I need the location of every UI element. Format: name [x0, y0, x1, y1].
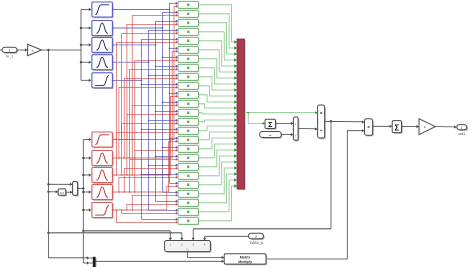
wire Sum1 to Sum2 [276, 122, 294, 125]
svg-text:Multiply: Multiply [238, 260, 252, 264]
wire MF B2 fanout to rule blocks [112, 50, 178, 159]
wire rule11 to mux bar [199, 95, 238, 104]
product block rule9 [178, 73, 199, 81]
wire node B to Mux3 input2 [83, 261, 93, 264]
wire Mux3 to MatrixMultiply [96, 260, 225, 263]
wire eps to Sum2 [281, 133, 293, 136]
wire rule1 to mux bar [199, 5, 238, 44]
wire MF A1 fanout to rule blocks [112, 2, 178, 185]
svg-text:+: + [295, 133, 297, 137]
product block rule20 [178, 172, 199, 180]
svg-text:DATA_A: DATA_A [250, 241, 264, 245]
mux Mux25 bar [237, 39, 246, 190]
wire MF B4 fanout to rule blocks [112, 140, 178, 193]
product block rule1 [178, 1, 199, 9]
wire Mux4 to MatrixMultiply [188, 252, 225, 260]
membership function B2 (input2) [92, 151, 114, 167]
sum block Sum3 [392, 121, 402, 134]
product block rule4 [178, 28, 199, 36]
product block rule23 [178, 199, 199, 207]
wire node A to Mux3 input1 [48, 256, 92, 259]
wire rule2 to mux bar [199, 14, 238, 50]
svg-text:Σ: Σ [268, 122, 272, 129]
wire MF A5 fanout to rule blocks [112, 38, 178, 221]
wire Sum2 to divide denominator [298, 127, 318, 130]
outport Out1 [457, 125, 468, 136]
wire rule10 to mux bar [199, 86, 238, 98]
wire branch to Sum1 [248, 113, 265, 125]
gain K2 [419, 119, 435, 135]
membership function B3 (input2) [92, 168, 114, 184]
wire node A to Mux2 input1 [48, 183, 72, 186]
product block rule8 [178, 64, 199, 72]
wire rule24 to mux bar [199, 178, 238, 212]
svg-text:+: + [295, 122, 297, 126]
product block rule25 [178, 217, 199, 225]
wire rule6 to mux bar [199, 50, 238, 74]
node A vertical x1 distribution [47, 50, 49, 258]
wire MF A2 fanout to rule blocks [112, 11, 178, 194]
wire rule16 to mux bar [199, 130, 238, 140]
wire rule13 to mux bar [199, 112, 238, 115]
sum block Sum1 [265, 119, 277, 130]
wire edge to In1 [0, 49, 2, 51]
product block rule12 [178, 100, 199, 108]
product block rule24 [178, 208, 199, 216]
wire rule8 to mux bar [199, 68, 238, 86]
product block rule16 [178, 136, 199, 144]
wire rule15 to mux bar [199, 124, 238, 131]
product block rule13 [178, 109, 199, 117]
wire rule21 to mux bar [199, 160, 238, 185]
wire rule5 to mux bar [199, 41, 238, 68]
svg-text:C: C [186, 247, 188, 251]
wire Mux25 to divide numerator [245, 111, 318, 114]
wire In1 to gain K1 [17, 48, 28, 51]
wire MF A3 fanout to rule blocks [112, 20, 178, 203]
wire unit delay to Mux2 input2 [66, 191, 73, 194]
mux Mux2 [73, 182, 79, 197]
product block rule22 [178, 190, 199, 198]
svg-text:2: 2 [255, 235, 257, 239]
membership function A2 (input1) [92, 21, 114, 37]
product block rule21 [178, 181, 199, 189]
wire rule12 to mux bar [199, 104, 238, 110]
wire node B to red MF bank and bottom [82, 138, 91, 263]
svg-text:Σ: Σ [394, 124, 399, 133]
svg-text:×: × [320, 111, 323, 116]
wire node B to Mux4 input1 [83, 231, 172, 241]
wire rule25 to mux bar [199, 184, 238, 221]
wire gain K1 output to node A [42, 49, 82, 51]
svg-text:×: × [367, 125, 370, 130]
svg-text:1/z: 1/z [60, 191, 64, 195]
product block rule18 [178, 154, 199, 162]
product block rule17 [178, 145, 199, 153]
svg-text:-e-: -e- [269, 133, 273, 137]
unit delay 1/z [58, 189, 67, 197]
membership function B4 (input2) [92, 185, 114, 201]
wire rule14 to mux bar [199, 118, 238, 122]
svg-text:1: 1 [461, 126, 463, 130]
product block Product2 [365, 119, 374, 137]
inport In1 [2, 47, 18, 58]
membership function A5 (input1) [92, 73, 114, 89]
membership function A3 (input1) [92, 37, 114, 53]
svg-text:w: w [32, 50, 34, 53]
wire MatrixMultiply to Product2 [266, 129, 365, 259]
membership function A4 (input1) [92, 55, 114, 71]
wire rule3 to mux bar [199, 23, 238, 56]
sum block Sum2 [293, 117, 299, 142]
wire rule17 to mux bar [199, 136, 238, 149]
wire rule22 to mux bar [199, 166, 238, 194]
svg-text:out1: out1 [458, 132, 465, 136]
product block rule10 [178, 82, 199, 90]
membership function B1 (input2) [92, 132, 114, 148]
wire DATA_A to Mux4 input4 [203, 236, 248, 240]
wire rule20 to mux bar [199, 154, 238, 176]
wire MF A4 fanout to rule blocks [112, 29, 178, 212]
svg-text:1: 1 [9, 49, 11, 53]
product block rule15 [178, 127, 199, 135]
wire MF B3 fanout to rule blocks [112, 95, 178, 176]
svg-text:in_1: in_1 [6, 54, 13, 58]
svg-text:Matrix: Matrix [240, 255, 251, 259]
matrix multiply block [224, 254, 267, 266]
divide block Divide [318, 105, 326, 139]
inport DATA_A [249, 233, 265, 245]
wire Product2 to Sum3 [373, 125, 393, 128]
gain K1 [28, 44, 42, 55]
product block rule19 [178, 163, 199, 171]
product block rule5 [178, 37, 199, 45]
svg-text:w: w [424, 126, 426, 129]
wire rule7 to mux bar [199, 59, 238, 80]
wire gain K2 to outport [435, 125, 456, 128]
wire rule23 to mux bar [199, 172, 238, 203]
constant eps [260, 132, 283, 139]
wire rule4 to mux bar [199, 32, 238, 62]
wire Divide output to Product2 [325, 120, 365, 123]
mux Mux4 C [165, 241, 212, 253]
product block rule2 [178, 10, 199, 18]
mux Mux3 bar [93, 257, 97, 267]
membership function B5 (input2) [92, 203, 114, 219]
wire x1 to blue MF bank [80, 8, 92, 82]
product block rule7 [178, 55, 199, 63]
wire MF B1 fanout to rule blocks [112, 5, 178, 140]
product block rule6 [178, 46, 199, 54]
wire Divide feedback to Mux4 input3 [192, 121, 331, 240]
product block rule11 [178, 91, 199, 99]
wire node A to unit delay [48, 190, 58, 193]
membership function A1 (input1) [92, 2, 114, 18]
wire rule9 to mux bar [199, 77, 238, 92]
wire rule19 to mux bar [199, 148, 238, 167]
wire node A to Mux4 input2 [48, 233, 183, 241]
product block rule3 [178, 19, 199, 27]
wire Sum3 to gain K2 [402, 125, 420, 128]
wire rule18 to mux bar [199, 142, 238, 158]
product block rule14 [178, 118, 199, 126]
wire MF B5 fanout to rule blocks [112, 185, 178, 224]
wire Mux2 output to node B [78, 187, 85, 189]
